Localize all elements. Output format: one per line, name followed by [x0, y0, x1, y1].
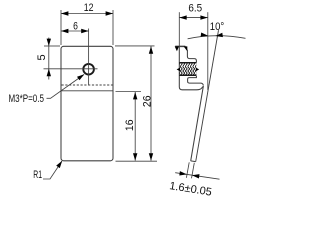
- svg-text:R1: R1: [33, 168, 42, 180]
- svg-text:M3*P=0.5: M3*P=0.5: [9, 93, 44, 106]
- svg-text:1.6±0.05: 1.6±0.05: [169, 180, 213, 199]
- svg-text:26: 26: [141, 95, 153, 107]
- svg-text:16: 16: [124, 119, 136, 131]
- svg-text:6: 6: [73, 21, 78, 33]
- svg-text:6.5: 6.5: [188, 3, 202, 15]
- svg-text:10°: 10°: [210, 22, 224, 34]
- svg-text:5: 5: [36, 54, 48, 60]
- svg-text:12: 12: [84, 2, 94, 14]
